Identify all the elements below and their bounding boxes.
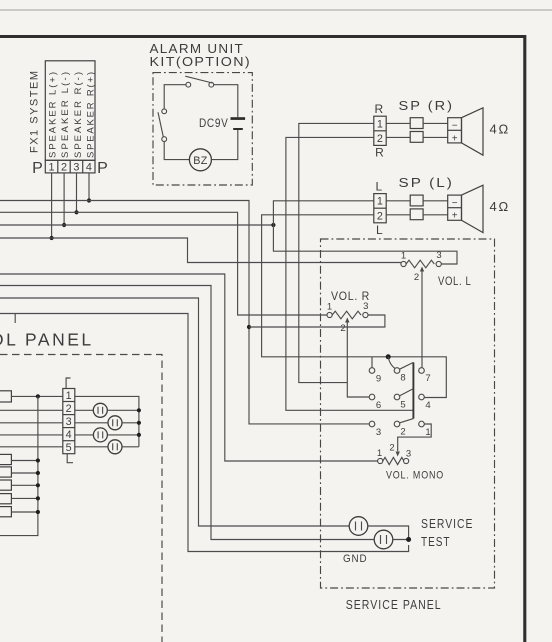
svg-text:3: 3 (376, 427, 381, 438)
svg-text:1: 1 (377, 448, 382, 459)
node pin4 junction (87, 198, 91, 202)
svg-text:3: 3 (436, 250, 441, 261)
node pin1 junction (50, 236, 54, 240)
wire pin1 to VOL.MONO wiper (398, 424, 432, 451)
component box L1 (0, 454, 11, 464)
wire alarm loop right lower (211, 130, 237, 160)
wire L3 to bus (11, 484, 38, 486)
wire pin3 down (76, 173, 78, 212)
control connector block 1-5 (63, 389, 75, 455)
component box L2 (0, 467, 11, 477)
svg-text:4Ω: 4Ω (490, 199, 511, 214)
svg-text:R: R (375, 146, 384, 160)
node bus L2 (36, 471, 40, 475)
selector arm bar (412, 362, 414, 418)
wire rail4 pin1 to VOL.L 1 (0, 238, 401, 263)
svg-text:VOL. MONO: VOL. MONO (386, 470, 444, 482)
wire L4 to bus (11, 497, 38, 499)
wire cell2 left (0, 409, 63, 411)
wire pin2 down (63, 173, 65, 225)
jack CP2 (108, 416, 122, 430)
wire SP(L) box to terminals (386, 200, 410, 202)
wire R0 to cell1 (11, 395, 62, 397)
wire cell4 left (0, 434, 63, 436)
wire rail3 pin2 (0, 224, 273, 226)
switch S1 contact right (209, 82, 214, 87)
svg-text:SP (L): SP (L) (399, 175, 455, 190)
svg-text:P: P (97, 160, 108, 177)
terminal square SP(L) 1 (410, 195, 423, 206)
connector SP(R) 1/2 (374, 116, 386, 145)
wire SP(R)2 feed (286, 137, 414, 410)
pin 5 (394, 394, 400, 400)
control panel dashed border (0, 355, 162, 642)
node bus L4 (36, 496, 40, 500)
svg-text:3: 3 (406, 449, 411, 460)
svg-text:1: 1 (401, 251, 406, 262)
wire rail2 pin3 (0, 212, 327, 315)
selector arm link pin2 (400, 419, 414, 423)
node VOL.R junction on rail1 vertical (247, 325, 251, 329)
jack service test B (374, 530, 393, 549)
svg-text:7: 7 (425, 373, 430, 384)
speaker SP(L) cone (462, 185, 484, 232)
pin 7 (419, 368, 425, 374)
svg-text:SPEAKER L(+): SPEAKER L(+) (48, 72, 59, 158)
connector P label box (45, 61, 95, 161)
node bus L5 (36, 510, 40, 514)
wire stub left edge (14, 314, 16, 324)
svg-text:ALARM UNIT: ALARM UNIT (150, 42, 245, 56)
switch S2 contact lower (162, 137, 167, 142)
svg-text:1: 1 (66, 390, 72, 402)
svg-text:SP (R): SP (R) (399, 98, 455, 113)
svg-text:2: 2 (66, 403, 72, 415)
svg-text:SPEAKER L(-): SPEAKER L(-) (60, 72, 71, 158)
svg-text:8: 8 (400, 373, 405, 384)
pin 8 (394, 368, 400, 374)
selector arm link pin5 (400, 389, 414, 396)
svg-text:1: 1 (48, 161, 54, 173)
alarm unit dash-dot box (153, 73, 252, 185)
svg-text:BZ: BZ (193, 155, 208, 167)
wire cell5 right (75, 446, 108, 448)
svg-text:2: 2 (377, 133, 383, 145)
potentiometer VOL.R (327, 301, 369, 397)
svg-text:−: − (452, 198, 458, 209)
connector bottom stub (67, 454, 73, 463)
svg-text:SERVICE: SERVICE (421, 517, 474, 531)
pin 9 (369, 368, 375, 374)
wire node to pin8 (388, 357, 395, 369)
wire jack CP2 to bus (122, 422, 139, 424)
node test common (406, 537, 411, 542)
svg-text:1: 1 (377, 118, 383, 130)
wire pin4 down (88, 173, 90, 201)
speaker SP(L) body (448, 195, 462, 222)
potentiometer VOL.MONO (377, 443, 411, 465)
svg-text:3: 3 (66, 416, 72, 428)
node bus L1 (36, 458, 40, 462)
potentiometer VOL.L (401, 250, 442, 368)
selector arm link pin8 (400, 362, 414, 369)
node bus right row4 (137, 433, 141, 437)
svg-text:GND: GND (343, 553, 368, 565)
svg-text:SPEAKER R(+): SPEAKER R(+) (86, 72, 97, 158)
wire cell1 right (75, 396, 139, 446)
svg-text:2: 2 (389, 443, 394, 454)
jack CP4 (108, 440, 122, 454)
svg-text:2: 2 (400, 427, 405, 438)
wire jack A to node (368, 526, 409, 540)
terminal square SP(L) 2 (410, 209, 423, 220)
wire jack CP3 to bus (107, 434, 138, 436)
pin 2 (394, 421, 400, 427)
switch S2 blade (158, 112, 163, 137)
node bus right row2 (137, 408, 141, 412)
node bus right row3 (137, 421, 141, 425)
battery BT1 plate short (233, 128, 243, 130)
component box L4 (0, 494, 11, 504)
wire jack B to node (393, 539, 409, 541)
svg-text:+: + (452, 133, 458, 144)
pin 3 (369, 421, 375, 427)
svg-text:4: 4 (425, 400, 430, 411)
node bus L3 (36, 483, 40, 487)
wire ctrl feed 4 GND (0, 314, 409, 552)
connector SP(L) 1/2 (374, 194, 386, 223)
svg-text:4: 4 (86, 161, 92, 173)
node rail3 junction (271, 223, 275, 227)
wire L2 to bus (11, 472, 38, 474)
wire SP(L)1 feed (273, 201, 457, 264)
jack service test A (349, 517, 368, 536)
svg-text:1: 1 (327, 302, 332, 313)
pin 1 (419, 421, 425, 427)
wire cell5 left (0, 446, 63, 448)
node pin3 junction (74, 210, 78, 214)
jack CP3 (93, 428, 107, 442)
svg-text:9: 9 (376, 374, 381, 385)
svg-text:OL PANEL: OL PANEL (0, 330, 94, 350)
wire ctrl feed 2 to test jack B (0, 286, 374, 540)
wire cell2 right (75, 409, 94, 411)
svg-text:TEST: TEST (421, 535, 451, 549)
svg-text:5: 5 (400, 400, 405, 411)
svg-text:5: 5 (66, 442, 72, 454)
wire alarm loop bottom left (164, 142, 189, 160)
svg-text:2: 2 (377, 211, 383, 223)
buzzer BZ (189, 149, 211, 171)
svg-text:SPEAKER R(-): SPEAKER R(-) (73, 72, 84, 158)
wire cell3 left (0, 422, 63, 424)
terminal square SP(R) 2 (410, 132, 423, 143)
svg-text:4: 4 (66, 429, 72, 441)
svg-text:1: 1 (377, 196, 383, 208)
svg-text:6: 6 (376, 400, 381, 411)
wire SP(R) box to terminals (386, 122, 410, 124)
wire jack CP1 to bus (107, 409, 139, 411)
svg-text:L: L (375, 180, 382, 194)
wire SP(L)2 feed (262, 215, 447, 398)
wire jack CP4 to bus (122, 446, 139, 448)
svg-text:3: 3 (73, 161, 79, 173)
svg-text:P: P (32, 160, 43, 177)
terminal square SP(R) 1 (410, 118, 423, 129)
wire rail1 pin4 to SP feeds (0, 201, 369, 424)
svg-text:2: 2 (61, 161, 67, 173)
wire ctrl feed 3 to test jack A (0, 298, 349, 526)
pin 4 (419, 394, 425, 400)
node pin2 junction (62, 223, 66, 227)
wire SP(R)1 feed (299, 123, 374, 382)
switch S1 contact left (186, 82, 191, 87)
bus vertical left (0, 396, 38, 535)
speaker SP(R) body (448, 118, 462, 145)
component box L5 (0, 507, 11, 517)
svg-text:4Ω: 4Ω (490, 122, 511, 137)
svg-text:2: 2 (414, 272, 419, 283)
wire ctrl feed 1 to VOL.MONO (0, 274, 378, 461)
node common above pin8 (386, 354, 391, 359)
connector top stub (66, 378, 70, 389)
svg-text:+: + (452, 211, 458, 222)
switch S2 contact upper (162, 109, 167, 114)
pin 6 (369, 394, 375, 400)
svg-text:FX1 SYSTEM: FX1 SYSTEM (29, 70, 41, 153)
jack CP1 (93, 403, 107, 417)
svg-text:L: L (376, 223, 383, 237)
connector P pin row 1|2|3|4 (45, 160, 95, 173)
svg-text:SERVICE PANEL: SERVICE PANEL (346, 598, 442, 612)
switch S1 blade (185, 76, 212, 83)
wire VOL.R terminal3 to rail1 junction (249, 315, 385, 327)
component box L3 (0, 480, 11, 490)
service panel dash-dot border (321, 239, 495, 588)
svg-text:1: 1 (425, 427, 430, 438)
wire terminals to speaker SP(L) (423, 200, 448, 202)
battery BT1 plate long (231, 117, 246, 120)
component R0 box (0, 391, 11, 402)
wire pin1 down (51, 173, 53, 238)
svg-text:KIT(OPTION): KIT(OPTION) (150, 55, 252, 69)
svg-text:DC9V: DC9V (199, 116, 229, 130)
svg-text:R: R (374, 102, 383, 116)
svg-text:VOL. L: VOL. L (438, 274, 472, 288)
wire cell3 right (75, 422, 108, 424)
wire pin9 riser (371, 357, 373, 368)
wire alarm loop top right (214, 85, 238, 118)
wire cell4 right (75, 434, 94, 436)
wire terminals to speaker SP(R) (423, 122, 448, 124)
node bus top (36, 394, 40, 398)
wire alarm loop left upper (164, 85, 186, 109)
svg-text:VOL. R: VOL. R (331, 289, 370, 303)
svg-text:−: − (452, 121, 458, 132)
speaker SP(R) cone (462, 108, 484, 155)
selector switch SW1 pins (369, 368, 430, 438)
wire L1 to bus (11, 460, 38, 462)
faint top rule (0, 9, 552, 11)
svg-text:2: 2 (340, 323, 345, 334)
wire L5 to bus (11, 511, 38, 513)
